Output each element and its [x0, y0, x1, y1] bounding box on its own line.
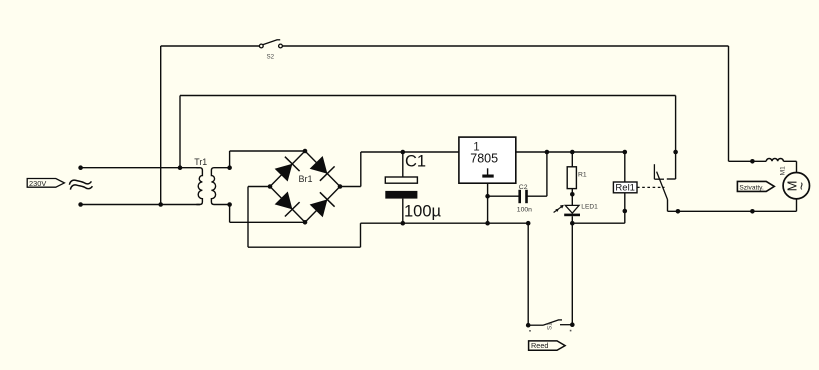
wire: bridge minus to ground rail — [248, 186, 270, 188]
wire: +5V rail — [516, 151, 625, 153]
svg-text:LED1: LED1 — [581, 203, 598, 210]
capacitor C1 — [402, 152, 404, 177]
transformer Tr1 primary winding — [196, 168, 202, 205]
svg-text:C2: C2 — [519, 184, 528, 191]
wire: 230V top wire — [81, 167, 200, 169]
reed switch S1 — [528, 324, 543, 326]
svg-text:~: ~ — [794, 182, 810, 190]
ground symbol inside 7805 — [487, 168, 489, 174]
inductor winding at motor — [766, 158, 783, 161]
node: motor bottom junction — [750, 209, 755, 214]
node: C1 top — [401, 150, 406, 155]
svg-text:C1: C1 — [405, 153, 426, 171]
wire: second rail right vertical down to relay contact — [675, 96, 677, 180]
node: C2 branch on +5V rail — [545, 150, 550, 155]
node: C1 bottom — [401, 221, 406, 226]
svg-text:Reed: Reed — [531, 341, 548, 350]
node: junction on 230V top wire — [178, 165, 183, 170]
wire: 7805 ground pin down — [487, 183, 489, 223]
wire: motor bottom rail — [668, 210, 797, 212]
node: bridge top — [303, 149, 308, 154]
node: R1 branch on +5V rail — [570, 150, 575, 155]
wire: second rail left vertical — [179, 96, 181, 168]
node: bridge bottom — [303, 220, 308, 225]
svg-text:M1: M1 — [780, 166, 787, 175]
node: source top terminal — [78, 165, 83, 170]
node: contact bottom junction — [676, 209, 681, 214]
regulator U1 7805 — [459, 137, 516, 183]
svg-text:R1: R1 — [578, 172, 587, 179]
node: reed right — [570, 322, 575, 327]
svg-text:100n: 100n — [517, 206, 532, 213]
svg-text:S2: S2 — [267, 54, 275, 61]
label Tr1 — [194, 157, 207, 167]
svg-text:7805: 7805 — [470, 152, 498, 166]
transformer Tr1 secondary winding — [211, 168, 229, 205]
wire: second rail — [180, 95, 676, 97]
label Szivatty flag — [737, 181, 774, 191]
label Reed flag — [529, 341, 566, 350]
switch S2 — [259, 40, 282, 61]
relay actuation dashed link — [637, 186, 665, 188]
wire: rail LED to Rel1 bottom corner — [572, 222, 625, 224]
svg-text:Rel1: Rel1 — [615, 183, 635, 194]
wire: bridge plus up to regulator input — [340, 186, 361, 188]
node: bridge left — [268, 184, 273, 189]
wire: top rail from S2 left — [161, 45, 262, 47]
AC source squiggle — [69, 180, 91, 185]
node: secondary bottom — [227, 202, 232, 207]
wire: right vertical down to motor line — [728, 46, 730, 161]
svg-text:Szivatty.: Szivatty. — [739, 184, 764, 191]
bridge rectifier Br1 — [270, 151, 340, 222]
LED1 arrows — [557, 206, 562, 210]
node: motor top junction — [750, 159, 755, 164]
relay contact — [654, 164, 675, 211]
wire: motor top wire — [729, 160, 767, 162]
svg-text:Br1: Br1 — [299, 174, 313, 184]
node: junction left vertical / bottom wire — [158, 202, 163, 207]
label 230V flag — [27, 179, 64, 188]
node: secondary top — [227, 165, 232, 170]
node: LED cathode on rail — [570, 221, 575, 226]
node: gnd rail junction — [485, 221, 490, 226]
node: Rel1 top on +5V rail — [623, 150, 628, 155]
wire: top rail from S2 right to right edge — [281, 45, 729, 47]
capacitor C2 — [488, 195, 520, 197]
node: Rel1 bottom pin junction — [623, 209, 628, 214]
node: R1/LED junction — [570, 192, 575, 197]
wire: reed left drop — [527, 223, 529, 325]
wire: secondary top to bridge top — [229, 151, 231, 168]
wire: 230V bottom wire — [81, 204, 200, 206]
node: ground rail to reed — [526, 221, 531, 226]
node: source bottom terminal — [78, 202, 83, 207]
svg-text:100µ: 100µ — [404, 203, 442, 221]
node: relay contact top connection — [673, 150, 678, 155]
wire: secondary bottom to bridge bottom — [229, 205, 231, 223]
wire: reed right drop — [571, 223, 573, 325]
node: gnd/C2 junction — [485, 194, 490, 199]
LED1 — [565, 205, 579, 213]
resistor R1 — [571, 152, 573, 167]
node: reed left — [526, 323, 531, 328]
relay coil Rel1 — [624, 152, 626, 182]
svg-text:S1: S1 — [547, 322, 554, 330]
motor M1 — [783, 173, 809, 199]
wire: left vertical S2 rail to bottom 230V wire — [160, 46, 162, 205]
svg-text:230V: 230V — [29, 179, 46, 188]
svg-text:Tr1: Tr1 — [194, 157, 207, 167]
wire: ground rail — [361, 222, 529, 224]
node: bridge right — [338, 184, 343, 189]
